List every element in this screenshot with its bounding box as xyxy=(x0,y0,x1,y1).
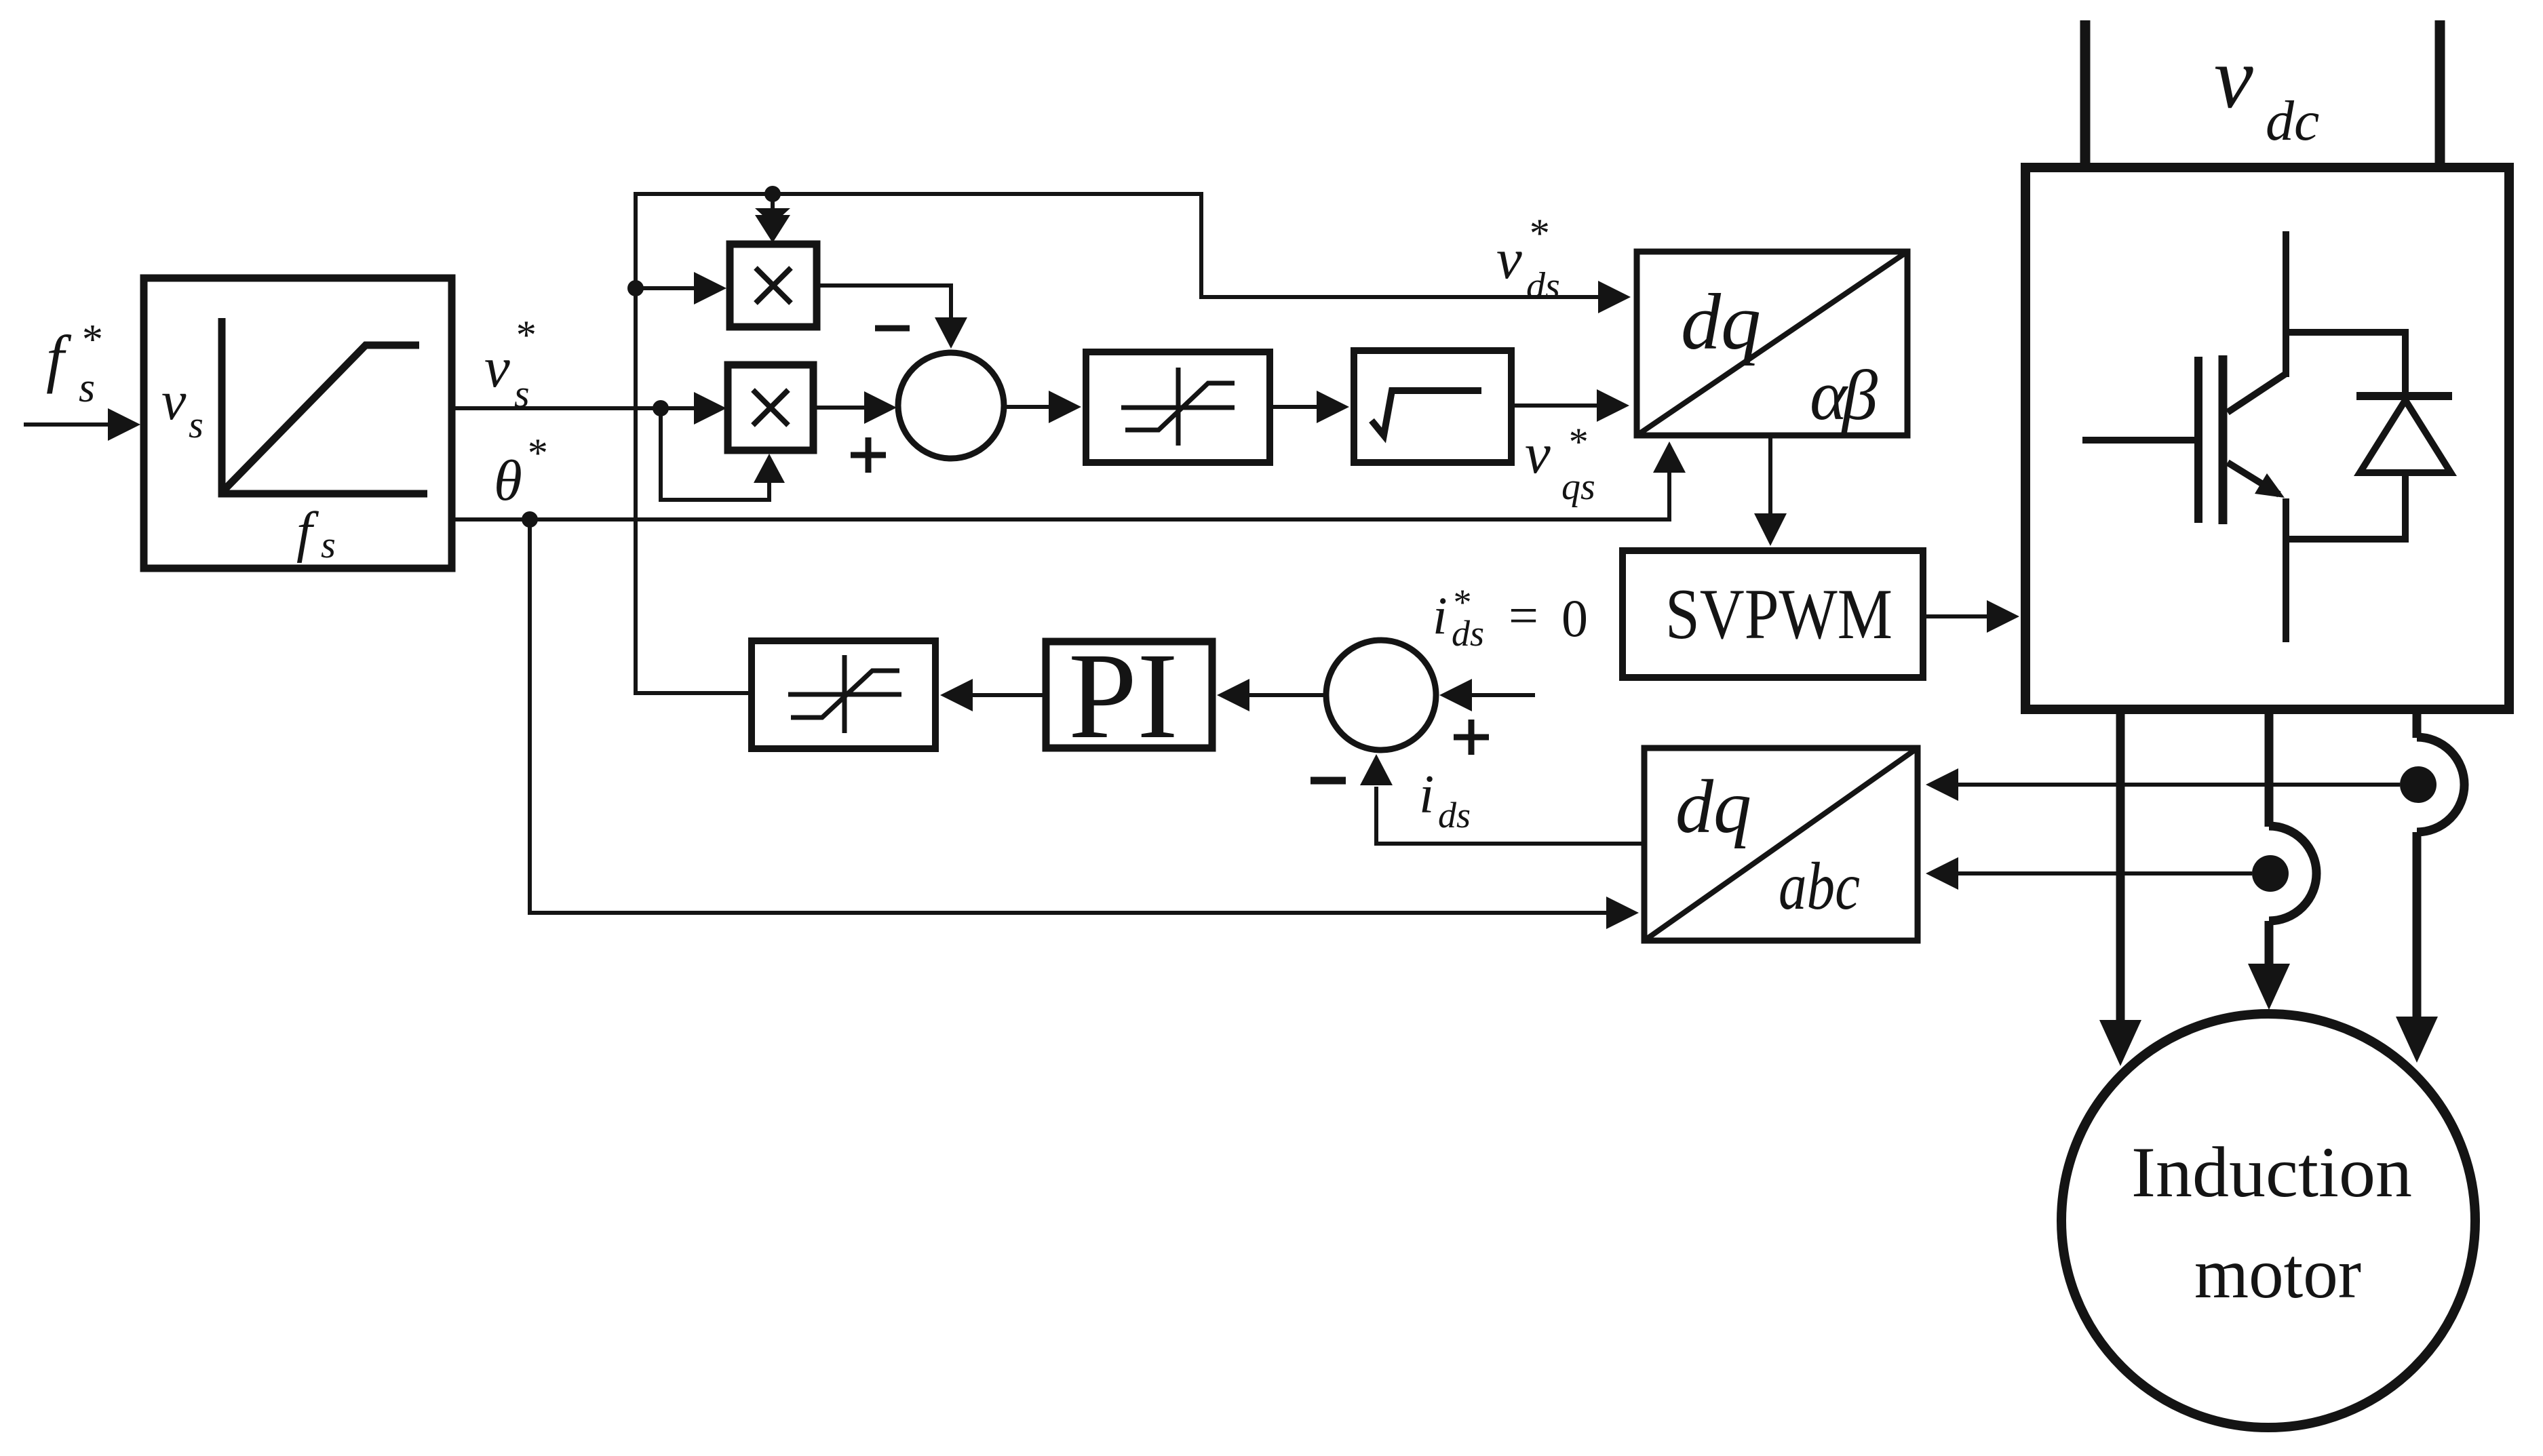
phase wire B upper segment xyxy=(2265,709,2274,827)
wire emitter to diode bottom xyxy=(2286,473,2405,539)
wire squaring loop from v_s* node to M2 bottom input xyxy=(661,408,785,500)
svg-text:s: s xyxy=(514,372,530,416)
IGBT Q1 emitter lead xyxy=(2283,498,2289,642)
wire M2 output to summing junction left (plus) xyxy=(817,391,897,424)
svg-text:0: 0 xyxy=(1561,589,1588,648)
svg-text:v: v xyxy=(484,336,510,399)
label f_s inside V/f block xyxy=(296,500,336,566)
PI controller block xyxy=(1046,642,1212,748)
svg-text:dq: dq xyxy=(1675,765,1751,849)
svg-text:*: * xyxy=(526,431,546,475)
multiplier M2 xyxy=(728,365,813,450)
label v_ds* xyxy=(1496,211,1560,307)
plus sign at SJ2 xyxy=(1454,720,1489,755)
saturation block S1 xyxy=(1086,352,1270,463)
phase wire C upper segment xyxy=(2413,709,2422,738)
svg-text:PI: PI xyxy=(1068,628,1178,764)
svg-text:*: * xyxy=(514,313,535,357)
svg-text:Induction: Induction xyxy=(2131,1133,2412,1212)
wire U1 output down to SVPWM xyxy=(1754,438,1787,546)
wire M1 left input xyxy=(636,272,726,304)
svg-text:v: v xyxy=(1525,422,1551,486)
phase wire B lower segment with arrow into motor xyxy=(2248,921,2290,1010)
sense wire phase B to dq/abc xyxy=(1926,857,2252,890)
IGBT Q1 emitter diagonal with arrow xyxy=(2228,463,2285,498)
dq/alphabeta transform block U1 xyxy=(1637,252,1907,435)
wire collector to diode top xyxy=(2286,332,2405,395)
label v_s inside V/f block xyxy=(161,370,203,446)
summing junction SJ2 xyxy=(1326,640,1436,750)
svg-text:=: = xyxy=(1509,586,1538,645)
svg-text:θ: θ xyxy=(494,449,522,513)
wire theta* branch down to dq/abc block xyxy=(530,519,1639,929)
summing junction SJ1 xyxy=(898,353,1004,458)
svg-text:ds: ds xyxy=(1452,613,1484,654)
minus sign at summing junction SJ1 xyxy=(875,326,910,332)
IGBT Q1 gate lead xyxy=(2082,437,2195,444)
DC bus stub left xyxy=(2080,20,2091,168)
svg-text:abc: abc xyxy=(1779,848,1860,924)
svg-text:v: v xyxy=(2214,29,2253,127)
svg-text:v: v xyxy=(1496,227,1522,291)
svg-text:dq: dq xyxy=(1681,277,1761,366)
SVPWM block xyxy=(1623,551,1923,677)
label i_ds xyxy=(1419,765,1471,835)
svg-text:*: * xyxy=(1567,420,1587,464)
label v_qs* xyxy=(1525,420,1595,508)
sense wire phase C to dq/abc xyxy=(1926,768,2400,801)
IGBT Q1 collector lead xyxy=(2283,231,2289,377)
svg-text:v: v xyxy=(161,370,187,431)
multiplier M1 xyxy=(730,244,817,327)
svg-text:i: i xyxy=(1433,586,1448,645)
svg-text:motor: motor xyxy=(2194,1234,2361,1313)
svg-text:s: s xyxy=(321,524,336,566)
input wire f_s* arrow into V/f block xyxy=(24,408,140,441)
node on theta* wire xyxy=(522,511,538,528)
svg-text:i: i xyxy=(1419,765,1434,825)
IGBT Q1 body bar xyxy=(2219,355,2228,524)
square-root block xyxy=(1354,351,1511,463)
induction motor xyxy=(2061,1014,2475,1428)
svg-text:SVPWM: SVPWM xyxy=(1665,574,1892,654)
wire theta* from V/f to dq/alphabeta bottom input xyxy=(455,441,1686,519)
freewheeling diode D1 xyxy=(2356,396,2452,473)
svg-text:s: s xyxy=(189,404,203,446)
phase wire C lower segment with arrow into motor xyxy=(2396,832,2438,1063)
label v_s* xyxy=(484,313,535,416)
label Induction motor xyxy=(2131,1133,2412,1313)
label v_dc xyxy=(2214,29,2319,153)
wire PI to saturation S2 xyxy=(940,679,1043,711)
label theta* xyxy=(494,431,546,513)
V/f curve block xyxy=(144,278,452,568)
wire i_ds feedback from U2 to SJ2 xyxy=(1360,754,1642,844)
phase wire A from inverter to motor xyxy=(2099,709,2141,1066)
inverter block xyxy=(2025,168,2509,709)
svg-text:qs: qs xyxy=(1561,466,1595,508)
wire S1 to square-root block xyxy=(1273,391,1349,423)
wire sqrt block to dq/alphabeta (v_qs*) xyxy=(1515,389,1629,422)
wire SJ2 to PI xyxy=(1217,679,1326,711)
wire i_ds*=0 input into SJ2 xyxy=(1439,679,1535,711)
wire M1 top input (double arrowhead) xyxy=(755,194,790,243)
minus sign at SJ2 xyxy=(1311,777,1346,785)
wire v_s* from V/f to multiplier M2 xyxy=(455,392,726,425)
wire SVPWM to inverter xyxy=(1926,600,2019,633)
node on v_ds* rail feeding M1 left input xyxy=(627,280,644,296)
svg-text:dc: dc xyxy=(2266,90,2319,153)
IGBT Q1 gate bar xyxy=(2194,357,2202,523)
plus sign at summing junction SJ1 xyxy=(851,437,886,473)
DC bus stub right xyxy=(2435,20,2445,168)
svg-text:αβ: αβ xyxy=(1810,355,1878,435)
svg-text:ds: ds xyxy=(1438,795,1471,835)
svg-text:s: s xyxy=(79,365,95,411)
node on v_ds* rail feeding M1 top input xyxy=(764,186,781,202)
current sensor on phase B xyxy=(2252,826,2316,921)
wire M1 output to summing junction top (minus) xyxy=(820,286,967,349)
svg-text:*: * xyxy=(1528,211,1548,256)
label f_s* xyxy=(46,317,101,411)
current sensor on phase C xyxy=(2400,737,2464,832)
label i_ds* = 0 xyxy=(1433,582,1588,654)
svg-text:*: * xyxy=(80,317,101,363)
saturation block S2 xyxy=(752,641,935,749)
wire v_ds* rail from saturation S2 up and right into dq/alphabeta xyxy=(636,194,1631,693)
wire SJ1 to saturation S1 xyxy=(1007,391,1081,423)
svg-text:ds: ds xyxy=(1526,265,1560,307)
node on v_s* wire xyxy=(653,400,669,416)
dq/abc transform block U2 xyxy=(1644,748,1918,941)
IGBT Q1 collector diagonal xyxy=(2228,374,2286,412)
